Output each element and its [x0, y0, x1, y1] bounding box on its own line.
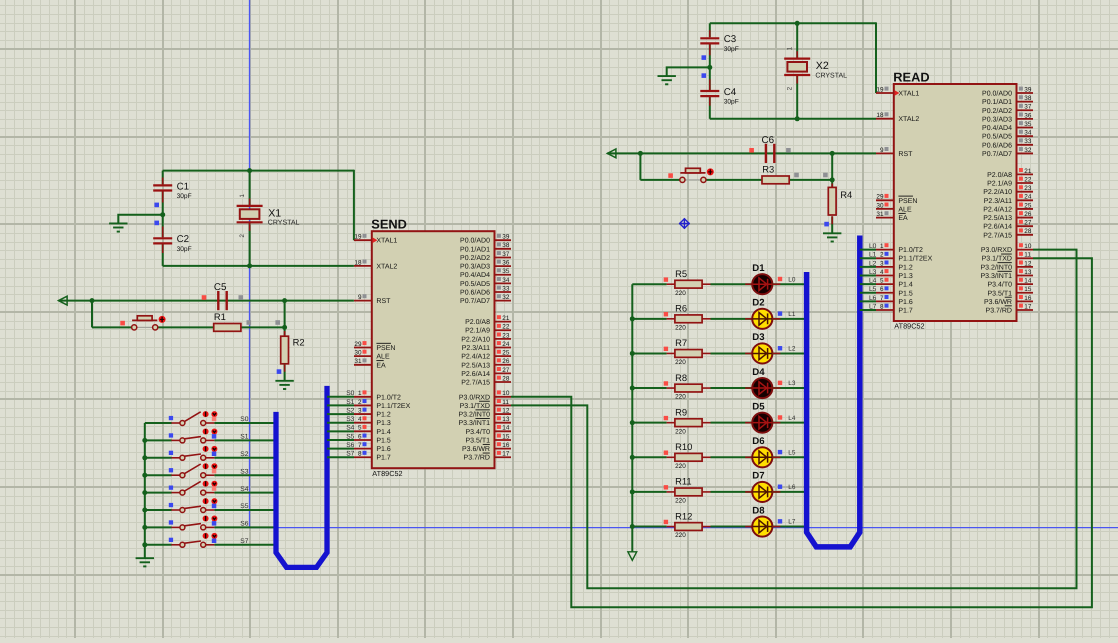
LED D5 [752, 413, 772, 433]
svg-text:30pF: 30pF [177, 246, 192, 253]
state indicator S6 left [169, 520, 173, 524]
LED D4 [752, 378, 772, 398]
pin 17 P3.7/RD (SEND) [464, 451, 511, 462]
svg-text:21: 21 [502, 315, 510, 322]
LED D3 [752, 343, 772, 363]
svg-text:36: 36 [1024, 112, 1032, 119]
wire R5 to D1 [711, 283, 753, 285]
svg-text:D3: D3 [752, 332, 764, 343]
actuator markers (S1) [203, 429, 218, 435]
svg-text:34: 34 [502, 277, 510, 284]
svg-text:P1.6: P1.6 [376, 446, 391, 453]
svg-text:15: 15 [502, 433, 510, 440]
svg-text:P3.0/RXD: P3.0/RXD [459, 393, 490, 401]
wire bus to pin 1 (SEND) [327, 396, 354, 398]
svg-text:16: 16 [502, 442, 510, 449]
svg-text:R1: R1 [214, 311, 226, 322]
pin 26 P2.5/A13 (READ) [983, 211, 1033, 222]
wire D5 to bus [772, 422, 806, 424]
svg-text:D1: D1 [752, 263, 765, 274]
sheet border horizontal [250, 527, 1118, 529]
svg-text:S0: S0 [240, 416, 248, 423]
svg-text:21: 21 [1024, 168, 1032, 175]
svg-text:XTAL2: XTAL2 [376, 263, 397, 270]
svg-text:29: 29 [876, 194, 884, 201]
wire X2 top net [710, 22, 876, 24]
svg-text:P2.6/A14: P2.6/A14 [983, 223, 1012, 231]
input terminal [607, 149, 616, 158]
wire X1 bottom net [163, 265, 354, 267]
svg-text:4: 4 [358, 416, 362, 423]
pin 5 P1.4 (READ) [876, 278, 913, 289]
svg-text:3: 3 [358, 407, 362, 414]
crystal X1 [237, 206, 263, 222]
switch S2 [171, 454, 214, 460]
svg-text:D7: D7 [752, 471, 764, 482]
wire rail to ground [144, 546, 146, 558]
LED D7 [752, 482, 772, 502]
pin 18 XTAL2 (SEND) [354, 259, 397, 270]
svg-text:19: 19 [876, 86, 884, 93]
svg-text:R9: R9 [675, 406, 687, 417]
wire RST net [59, 300, 354, 302]
pin 38 P0.1/AD1 (READ) [982, 95, 1033, 106]
state indicator R1 right [247, 320, 252, 325]
wire D4 to bus [772, 387, 806, 389]
pin 22 P2.1/A9 (READ) [987, 176, 1033, 187]
svg-text:P3.4/T0: P3.4/T0 [465, 428, 490, 436]
svg-text:3: 3 [880, 260, 884, 267]
svg-text:220: 220 [675, 359, 686, 366]
pin 22 P2.1/A9 (SEND) [465, 324, 511, 335]
wire switch row S5 [145, 509, 172, 511]
wire D7 to bus [772, 491, 806, 493]
svg-text:P2.2/A10: P2.2/A10 [983, 188, 1012, 196]
switch S7 [171, 541, 214, 547]
resistor R4 [828, 187, 836, 215]
svg-text:16: 16 [1024, 295, 1032, 302]
svg-text:P1.7: P1.7 [376, 455, 391, 462]
wire button to R1 [158, 326, 285, 328]
wire C3-C4 node [709, 44, 711, 90]
pin 9 RST (READ) [876, 147, 913, 158]
pin 8 P1.7 (READ) [876, 303, 913, 314]
svg-text:28: 28 [502, 375, 510, 382]
state indicator button left [120, 321, 125, 326]
op-amp n/a; MCU READ AT89C52 [894, 84, 1017, 321]
svg-text:R7: R7 [675, 337, 687, 348]
sheet border vertical [249, 0, 251, 528]
pin 35 P0.4/AD4 (SEND) [460, 268, 511, 279]
svg-text:X2: X2 [816, 60, 829, 72]
svg-text:R11: R11 [675, 476, 692, 487]
svg-text:26: 26 [1024, 211, 1032, 218]
wire switch row S2 [145, 457, 172, 459]
wire rail to ground (LED) [631, 527, 633, 552]
pin 15 P3.5/T1 (READ) [987, 286, 1033, 297]
svg-text:PSEN: PSEN [376, 345, 395, 352]
svg-text:39: 39 [502, 234, 510, 241]
svg-text:P2.0/A8: P2.0/A8 [987, 171, 1012, 179]
svg-text:XTAL2: XTAL2 [898, 116, 919, 123]
svg-text:27: 27 [502, 367, 510, 374]
wire down to button row [91, 301, 93, 328]
wire bus to pin 6 (READ) [860, 292, 876, 294]
svg-text:29: 29 [354, 341, 362, 348]
junction [795, 116, 800, 121]
svg-text:P0.4/AD4: P0.4/AD4 [460, 271, 490, 279]
svg-text:5: 5 [880, 278, 884, 285]
resistor R7 [675, 350, 702, 358]
actuator marker (reset button (SEND)) [159, 316, 166, 323]
svg-text:P0.5/AD5: P0.5/AD5 [982, 133, 1012, 141]
wire D6 to bus [772, 456, 806, 458]
svg-text:P0.3/AD3: P0.3/AD3 [982, 115, 1012, 123]
wire rail to R10 [632, 456, 666, 458]
wire SEND P3.0 to READ P3.1 [511, 258, 1092, 607]
svg-text:P2.3/A11: P2.3/A11 [984, 197, 1012, 205]
pin 38 P0.1/AD1 (SEND) [460, 242, 511, 253]
capacitor C3 [700, 38, 719, 43]
state indicator D3 right [778, 346, 782, 350]
wire C2 bottom pin [162, 244, 164, 266]
svg-text:220: 220 [675, 463, 686, 470]
pin 10 P3.0/RXD (READ) [981, 243, 1033, 254]
ground (arrow) [628, 552, 637, 561]
svg-text:17: 17 [1024, 303, 1032, 310]
wire bus to pin 2 (SEND) [327, 404, 354, 406]
svg-text:8: 8 [880, 303, 884, 310]
svg-text:L5: L5 [788, 449, 796, 456]
svg-text:2: 2 [239, 234, 246, 238]
pin 36 P0.3/AD3 (SEND) [460, 259, 511, 270]
svg-text:220: 220 [675, 498, 686, 505]
wire X2 bottom net [710, 118, 876, 120]
pin 3 P1.2 (READ) [876, 260, 913, 271]
svg-text:P1.6: P1.6 [898, 299, 913, 306]
svg-text:R6: R6 [675, 303, 687, 314]
wire S7 to bus [214, 544, 276, 546]
svg-text:P2.0/A8: P2.0/A8 [465, 318, 490, 326]
svg-text:SEND: SEND [371, 217, 407, 232]
state indicator S4 left [169, 486, 173, 490]
junction [247, 263, 252, 268]
push button reset button (READ) [680, 168, 706, 182]
pin 6 P1.5 (SEND) [354, 433, 391, 444]
pin 6 P1.5 (READ) [876, 286, 913, 297]
state indicator R12 left [664, 520, 668, 524]
svg-text:P2.1/A9: P2.1/A9 [465, 327, 490, 335]
svg-text:D5: D5 [752, 401, 765, 412]
svg-text:18: 18 [354, 259, 362, 266]
svg-text:33: 33 [1024, 138, 1032, 145]
svg-text:P0.0/AD0: P0.0/AD0 [982, 90, 1012, 98]
svg-text:9: 9 [880, 147, 884, 154]
state indicator D7 right [778, 485, 782, 489]
state indicator R10 left [664, 451, 668, 455]
svg-text:P1.4: P1.4 [898, 282, 913, 289]
state indicator (S0) [212, 417, 217, 422]
svg-text:P1.3: P1.3 [376, 420, 391, 427]
state indicator S2 left [169, 451, 173, 455]
svg-text:CRYSTAL: CRYSTAL [815, 72, 847, 79]
LED D1 [752, 274, 772, 294]
state indicator R4 top [823, 173, 828, 178]
junction [142, 490, 147, 495]
svg-text:33: 33 [502, 285, 510, 292]
svg-text:R8: R8 [675, 372, 687, 383]
svg-text:C4: C4 [724, 87, 737, 98]
wire button to R3 [706, 179, 833, 181]
svg-text:10: 10 [1024, 243, 1032, 250]
svg-text:14: 14 [502, 425, 510, 432]
wire R8 to D4 [711, 387, 753, 389]
state indicator D5 right [778, 415, 782, 419]
wire bus to pin 3 (SEND) [327, 413, 354, 415]
wire R7 pins [667, 352, 676, 354]
svg-text:24: 24 [1024, 194, 1032, 201]
wire bus to pin 4 (SEND) [327, 422, 354, 424]
state indicator C4 [702, 73, 707, 78]
pin 16 P3.6/WR (READ) [984, 295, 1033, 306]
resistor R1 [214, 324, 241, 332]
junction [630, 420, 635, 425]
junction [630, 386, 635, 391]
svg-text:P1.5: P1.5 [376, 437, 391, 444]
svg-text:AT89C52: AT89C52 [372, 469, 402, 478]
pin 28 P2.7/A15 (READ) [983, 228, 1033, 239]
junction [630, 524, 635, 529]
pin 12 P3.2/INT0 (SEND) [458, 407, 511, 418]
svg-text:P3.1/TXD: P3.1/TXD [460, 402, 490, 410]
pin 13 P3.3/INT1 (SEND) [458, 416, 511, 427]
switch S1 [171, 437, 214, 443]
wire D2 to bus [772, 318, 806, 320]
svg-text:P2.1/A9: P2.1/A9 [987, 180, 1012, 188]
svg-text:P0.6/AD6: P0.6/AD6 [460, 288, 490, 296]
ground [136, 558, 154, 566]
resistor R11 [675, 488, 702, 496]
wire bus to pin 6 (SEND) [327, 439, 354, 441]
state indicator C5 right [239, 295, 244, 300]
svg-text:L0: L0 [788, 276, 796, 283]
svg-text:L1: L1 [788, 311, 796, 318]
wire rail to R9 [632, 422, 666, 424]
wire R10 pins [667, 456, 676, 458]
svg-text:ALE: ALE [376, 354, 390, 361]
wire to ground (READ osc) [667, 67, 710, 75]
pin 25 P2.4/A12 (SEND) [461, 350, 511, 361]
svg-text:P1.0/T2: P1.0/T2 [376, 393, 401, 401]
junction [630, 316, 635, 321]
wire down to button row (READ) [639, 153, 641, 180]
pin 16 P3.6/WR (SEND) [462, 442, 511, 453]
wire to XTAL1 [353, 170, 355, 241]
svg-text:P1.3: P1.3 [898, 273, 913, 280]
pin 37 P0.2/AD2 (READ) [982, 104, 1033, 115]
LED D2 [752, 309, 772, 329]
state indicator R2 top [275, 320, 280, 325]
svg-text:R12: R12 [675, 510, 692, 521]
svg-text:S1: S1 [240, 434, 248, 441]
wire C4 bottom pin [709, 97, 711, 119]
svg-text:8: 8 [358, 451, 362, 458]
wire bus to pin 5 (SEND) [327, 430, 354, 432]
wire R12 to D8 [711, 526, 753, 528]
wire bus to pin 7 (SEND) [327, 448, 354, 450]
state indicator (S7) [212, 539, 217, 544]
resistor R9 [675, 419, 702, 427]
svg-text:R3: R3 [762, 164, 774, 175]
pin 12 P3.2/INT0 (READ) [980, 260, 1033, 271]
svg-text:S3: S3 [240, 468, 248, 475]
wire switch row S1 [145, 439, 172, 441]
wire S5 to bus [214, 509, 276, 511]
svg-text:P3.3/INT1: P3.3/INT1 [980, 272, 1012, 280]
state indicator R4 bottom [824, 222, 829, 227]
pin 39 P0.0/AD0 (SEND) [460, 234, 511, 245]
svg-text:P3.7/RD: P3.7/RD [986, 307, 1012, 315]
svg-text:P2.6/A14: P2.6/A14 [461, 370, 490, 378]
state indicator (S5) [212, 504, 217, 509]
input terminal [59, 296, 68, 305]
junction [282, 298, 287, 303]
svg-text:15: 15 [1024, 286, 1032, 293]
pin 37 P0.2/AD2 (SEND) [460, 251, 511, 262]
state indicator (S1) [212, 434, 217, 439]
pin 31 EA (READ) [876, 211, 908, 222]
state indicator R6 left [664, 312, 668, 316]
pin 1 P1.0/T2 (READ) [876, 243, 923, 254]
actuator markers (S4) [203, 481, 218, 487]
wire rail to R7 [632, 352, 666, 354]
svg-text:EA: EA [376, 362, 386, 369]
state indicator R7 left [664, 347, 668, 351]
svg-text:L4: L4 [788, 415, 796, 422]
junction [142, 438, 147, 443]
pin 29 PSEN (SEND) [354, 341, 395, 352]
state indicator S1 left [169, 433, 173, 437]
junction [830, 151, 835, 156]
pin 17 P3.7/RD (READ) [986, 303, 1033, 314]
svg-text:PSEN: PSEN [898, 198, 917, 205]
pin 24 P2.3/A11 (SEND) [462, 341, 511, 352]
pin 18 XTAL2 (READ) [876, 112, 919, 123]
pin 30 ALE (READ) [876, 202, 912, 213]
clock arrow (READ) [895, 90, 900, 96]
wire S1 to bus [214, 439, 276, 441]
state indicator R5 left [664, 277, 668, 281]
wire D1 to bus [772, 283, 806, 285]
svg-text:23: 23 [1024, 185, 1032, 192]
wire S4 to bus [214, 492, 276, 494]
wire to ground [118, 215, 162, 223]
svg-text:P0.1/AD1: P0.1/AD1 [982, 98, 1012, 106]
svg-text:RST: RST [376, 298, 391, 305]
svg-text:CRYSTAL: CRYSTAL [268, 220, 300, 227]
wire S3 to bus [214, 474, 276, 476]
resistor R8 [675, 384, 702, 392]
svg-text:26: 26 [502, 358, 510, 365]
svg-text:2: 2 [787, 86, 794, 90]
state indicator C2 [154, 221, 159, 226]
wire R2 bottom pin [284, 364, 286, 381]
svg-text:P0.3/AD3: P0.3/AD3 [460, 263, 490, 271]
wire X2 pin2 [796, 75, 798, 119]
wire X1 top net [163, 170, 354, 172]
wire D8 to bus [772, 526, 806, 528]
junction [142, 525, 147, 530]
wire switch row S4 [145, 492, 172, 494]
wire bus to pin 3 (READ) [860, 266, 876, 268]
svg-text:220: 220 [675, 290, 686, 297]
svg-text:P1.2: P1.2 [376, 412, 391, 419]
pin 19 XTAL1 (SEND) [354, 234, 397, 245]
svg-text:9: 9 [358, 294, 362, 301]
actuator markers (S0) [203, 411, 218, 417]
svg-text:32: 32 [1024, 147, 1032, 154]
svg-text:P2.5/A13: P2.5/A13 [461, 361, 490, 369]
pin 23 P2.2/A10 (SEND) [461, 332, 511, 343]
wire bus to pin 8 (SEND) [327, 456, 354, 458]
svg-text:S7: S7 [240, 538, 248, 545]
pin 2 P1.1/T2EX (SEND) [354, 399, 411, 410]
svg-text:2: 2 [358, 399, 362, 406]
svg-text:7: 7 [358, 442, 362, 449]
pin 36 P0.3/AD3 (READ) [982, 112, 1033, 123]
svg-text:C6: C6 [762, 135, 775, 146]
wire RST to R4 node [831, 153, 833, 180]
svg-text:P2.2/A10: P2.2/A10 [461, 335, 490, 343]
wire R10 to D6 [711, 456, 753, 458]
svg-text:14: 14 [1024, 278, 1032, 285]
junction [707, 65, 712, 70]
pin 10 P3.0/RXD (SEND) [459, 390, 511, 401]
wire rail to R11 [632, 491, 666, 493]
svg-text:4: 4 [880, 269, 884, 276]
actuator markers (S3) [203, 463, 218, 469]
wire switch row S3 [145, 474, 172, 476]
bus (READ P1) [807, 236, 860, 547]
svg-text:13: 13 [1024, 269, 1032, 276]
svg-text:18: 18 [876, 112, 884, 119]
wire R6 pins [667, 318, 676, 320]
svg-text:RST: RST [898, 151, 913, 158]
pin 13 P3.3/INT1 (READ) [980, 269, 1033, 280]
svg-text:36: 36 [502, 259, 510, 266]
svg-text:C1: C1 [177, 181, 190, 192]
svg-text:30pF: 30pF [724, 46, 739, 53]
svg-text:C2: C2 [177, 234, 190, 245]
junction [282, 325, 287, 330]
wire rail to R12 [632, 526, 666, 528]
svg-text:P1.2: P1.2 [898, 264, 913, 271]
wire bus to pin 4 (READ) [860, 274, 876, 276]
state indicator R11 left [664, 485, 668, 489]
bus (SEND P1) [276, 386, 327, 568]
svg-text:S5: S5 [240, 503, 248, 510]
svg-text:D2: D2 [752, 298, 764, 309]
svg-text:P0.7/AD7: P0.7/AD7 [460, 297, 490, 305]
pin 26 P2.5/A13 (SEND) [461, 358, 511, 369]
svg-text:6: 6 [880, 286, 884, 293]
svg-text:P3.3/INT1: P3.3/INT1 [458, 419, 490, 427]
svg-text:30pF: 30pF [724, 99, 739, 106]
svg-text:31: 31 [876, 211, 884, 218]
svg-text:P3.6/WR: P3.6/WR [462, 445, 490, 453]
svg-text:X1: X1 [268, 207, 281, 219]
switch S5 [171, 506, 214, 512]
